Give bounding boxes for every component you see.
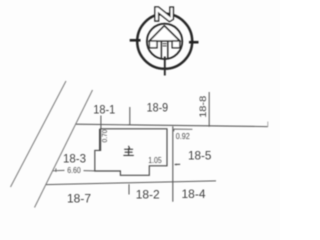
north arrow left tick [130, 39, 141, 42]
svg-text:1.05: 1.05 [148, 156, 162, 165]
dimension line 0.92 [174, 128, 193, 130]
svg-text:6.60: 6.60 [67, 166, 81, 175]
north arrow inner circle [147, 24, 182, 59]
svg-text:0.70: 0.70 [100, 130, 109, 143]
svg-text:18-9: 18-9 [147, 101, 169, 115]
letter N of north arrow [155, 7, 174, 22]
north arrow shaft dashes [163, 43, 167, 45]
parcel line top (18-1/18-9 south boundary) [76, 124, 268, 126]
svg-text:18-5: 18-5 [188, 148, 212, 162]
svg-text:18-3: 18-3 [63, 151, 86, 165]
parcel line 18-1/18-9 divider [129, 107, 131, 125]
svg-text:18-7: 18-7 [67, 191, 91, 205]
end tick of top parcel line [267, 122, 269, 127]
north arrow bottom tick [164, 57, 166, 76]
dimension line 6.60 [53, 169, 65, 171]
north arrow outer circle [137, 14, 192, 69]
dimension arrow at 18-5 west [175, 163, 180, 165]
parcel line above 18-7 18-2 18-4 [46, 181, 216, 185]
svg-text:18-1: 18-1 [93, 103, 115, 117]
boundary tick below 18-1 [100, 116, 102, 129]
parcel line 18-8 divider [208, 92, 210, 127]
north arrow right wing [172, 41, 180, 48]
road edge diagonal A [11, 81, 67, 187]
boundary tick 18-7/18-2 [128, 184, 130, 194]
svg-text:18-2: 18-2 [136, 187, 160, 201]
svg-text:0.92: 0.92 [176, 132, 190, 141]
parcel line 18-5 west boundary [172, 126, 174, 201]
kanji 主 (main building) drawn as strokes [124, 146, 134, 155]
north arrow shaft [160, 41, 162, 59]
road edge diagonal B [35, 90, 93, 208]
building outline [95, 129, 167, 176]
north arrow head triangle [149, 26, 179, 41]
north arrow left wing [149, 41, 157, 48]
svg-text:18-8: 18-8 [198, 96, 209, 118]
building eaves double line at 0.70 [99, 129, 101, 151]
north arrow right tick [189, 41, 199, 44]
svg-text:18-4: 18-4 [182, 187, 206, 201]
